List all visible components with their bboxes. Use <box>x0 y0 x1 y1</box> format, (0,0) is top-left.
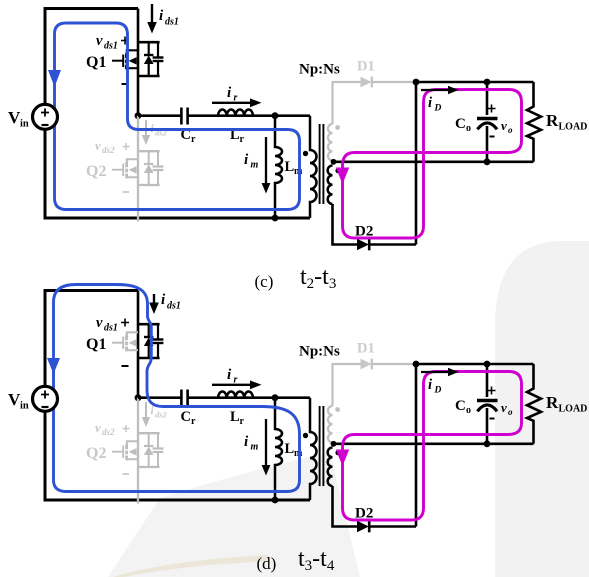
node Lm top (d) <box>272 394 279 401</box>
node junction Q1-Q2-Cr (c) <box>135 112 142 119</box>
svg-text:ds1: ds1 <box>104 41 118 52</box>
transistor Q2 MOSFET gray (c) <box>112 159 138 178</box>
svg-text:in: in <box>20 401 29 412</box>
current arrow i_D (c) <box>421 89 449 91</box>
node Co bottom (d) <box>484 440 491 447</box>
capacitor Q1 snubber (d) <box>153 324 164 358</box>
diode Q1 body diode (d) <box>144 324 154 358</box>
svg-text:r: r <box>191 416 196 427</box>
svg-text:in: in <box>20 119 29 130</box>
transformer secondary winding upper (gray, D1 path) (d) <box>328 406 333 443</box>
wire Q2 branch gray (c) <box>137 116 139 222</box>
label plus/minus vo (d) <box>488 387 496 395</box>
secondary lower polarity dot (d) <box>335 450 340 455</box>
transformer secondary winding lower (c) <box>328 165 333 204</box>
wire left + bottom rail primary (c) <box>45 129 310 218</box>
current arrow i_m (c) <box>265 137 267 184</box>
svg-text:v: v <box>95 138 101 153</box>
label plus/minus v_ds2 gray (c) <box>123 143 130 150</box>
resistor RLOAD (c) <box>527 82 541 162</box>
svg-text:v: v <box>95 420 101 435</box>
current loop secondary arrowhead (magenta) (d) <box>336 450 349 467</box>
node Lm top (c) <box>272 112 279 119</box>
transformer core (d) <box>320 406 324 486</box>
inductor Lr (c) <box>218 109 253 115</box>
wire output top rail (d) <box>416 363 534 366</box>
svg-text:o: o <box>508 125 513 135</box>
current arrow i_r (c) <box>212 102 251 104</box>
svg-text:(c): (c) <box>255 272 274 291</box>
wire center tap to output return (d) <box>333 442 534 445</box>
svg-text:R: R <box>546 393 559 412</box>
svg-text:i: i <box>428 377 432 393</box>
svg-text:i: i <box>428 95 432 111</box>
svg-text:C: C <box>455 116 466 132</box>
capacitor Co (c) <box>486 82 489 115</box>
wire left + bottom rail primary (d) <box>45 411 310 500</box>
transistor Q2 MOSFET gray (d) <box>112 441 138 460</box>
svg-text:o: o <box>508 407 513 417</box>
transistor Q1 MOSFET (d) <box>112 332 138 351</box>
current arrow i_ds1 (c) <box>151 4 153 23</box>
current arrow i_D (d) <box>421 371 449 373</box>
diode D2 (c) <box>357 239 369 251</box>
wire secondary upper to D1 gray (c) <box>333 82 361 124</box>
wire Q2 network bottom bar gray (d) <box>138 466 160 468</box>
wire Q2 network bottom bar gray (c) <box>138 184 160 186</box>
node Co top (c) <box>484 79 491 86</box>
svg-text:ds1: ds1 <box>104 323 118 334</box>
wire D1 to output rail gray (d) <box>372 363 416 365</box>
current loop secondary arrowhead (magenta) (c) <box>336 168 349 185</box>
svg-text:r: r <box>191 134 196 145</box>
resistor RLOAD (d) <box>527 364 541 444</box>
svg-text:D: D <box>434 104 442 114</box>
svg-text:v: v <box>501 400 507 415</box>
svg-text:(d): (d) <box>257 554 277 573</box>
wire Q2 branch gray (d) <box>137 398 139 504</box>
svg-text:LOAD: LOAD <box>559 122 588 133</box>
transformer primary winding (c) <box>310 116 317 218</box>
svg-text:Q2: Q2 <box>86 445 106 462</box>
label plus/minus v_ds2 gray (d) <box>123 425 130 432</box>
background wash bottom center <box>108 452 360 577</box>
svg-text:r: r <box>240 416 245 427</box>
transformer secondary winding lower (d) <box>328 447 333 486</box>
transformer primary polarity dot (d) <box>303 433 308 438</box>
wire junction to Cr (d) <box>138 396 181 399</box>
svg-text:C: C <box>455 398 466 414</box>
svg-text:v: v <box>96 33 103 49</box>
svg-text:o: o <box>466 123 471 134</box>
svg-text:m: m <box>251 442 259 453</box>
wire center tap to output return (c) <box>333 161 534 164</box>
wire Q1 drain/source branch (c) <box>137 9 140 116</box>
transformer primary winding (d) <box>310 398 317 500</box>
svg-text:m: m <box>251 160 259 171</box>
svg-text:LOAD: LOAD <box>559 404 588 415</box>
node center tap (c) <box>331 159 337 165</box>
label plus/minus v_ds1 (d) <box>121 319 129 327</box>
node junction Q1-Q2-Cr (d) <box>135 394 142 401</box>
svg-text:ds1: ds1 <box>167 301 181 312</box>
current arrow i_m (d) <box>265 419 267 466</box>
svg-text:r: r <box>234 93 238 104</box>
node Co bottom (c) <box>484 158 491 165</box>
svg-text:Q1: Q1 <box>86 336 106 353</box>
svg-text:D1: D1 <box>357 59 375 75</box>
wire junction to Cr (c) <box>138 114 181 117</box>
node output rail / D1-D2 (c) <box>413 79 420 86</box>
svg-text:Q1: Q1 <box>86 54 106 71</box>
wire Q1 network bottom bar (c) <box>138 75 160 78</box>
svg-text:L: L <box>285 159 295 175</box>
wire Q1 network top bar (d) <box>138 323 160 326</box>
inductor Lm (d) <box>275 398 282 500</box>
current loop primary arrowhead (blue) (d) <box>47 358 60 374</box>
wire Q2 network top bar gray (d) <box>138 432 160 434</box>
voltage source Vin (c) <box>33 104 58 129</box>
svg-text:D1: D1 <box>357 341 375 357</box>
node Co top (d) <box>484 361 491 368</box>
diode Q2 body diode gray (c) <box>144 151 154 185</box>
transformer primary polarity dot (c) <box>303 151 308 156</box>
wire top rail primary (d) <box>45 291 138 387</box>
wire D2 to riser (c) <box>369 243 416 246</box>
capacitor Co (d) <box>486 364 489 397</box>
secondary upper polarity dot gray (c) <box>335 125 340 130</box>
current loop primary arrowhead (blue) (c) <box>48 70 61 87</box>
svg-text:ds2: ds2 <box>102 427 115 437</box>
current arrow i_ds1 (d) <box>153 294 155 304</box>
secondary lower polarity dot (c) <box>335 168 340 173</box>
wire Q1 network top bar (c) <box>138 41 160 44</box>
diode D2 (d) <box>357 521 369 533</box>
svg-text:D: D <box>434 386 442 396</box>
capacitor Q2 snubber gray (d) <box>153 433 164 467</box>
capacitor Q2 snubber gray (c) <box>153 151 164 185</box>
wire secondary lower to D2 (d) <box>333 486 358 527</box>
svg-text:R: R <box>546 111 559 130</box>
capacitor Cr (c) <box>181 108 187 125</box>
svg-text:C: C <box>181 409 191 425</box>
svg-text:Np:Ns: Np:Ns <box>299 344 340 360</box>
inductor Lr (d) <box>218 391 253 397</box>
wire Q1 network bottom bar (d) <box>138 357 160 360</box>
transistor Q1 MOSFET (c) <box>112 50 138 69</box>
svg-text:o: o <box>466 405 471 416</box>
background blob right <box>495 241 589 577</box>
svg-text:Q2: Q2 <box>86 163 106 180</box>
diode Q1 body diode (c) <box>144 42 154 76</box>
current loop secondary (magenta) (c) <box>343 90 522 239</box>
svg-text:L: L <box>230 409 240 425</box>
wire D2 to riser (d) <box>369 525 416 528</box>
node center tap (d) <box>331 441 337 447</box>
svg-text:v: v <box>501 118 507 133</box>
background tan arc <box>113 555 270 577</box>
current arrow i_ds2 gray (d) <box>145 402 147 418</box>
inductor Lm (c) <box>275 116 282 218</box>
svg-text:ds2: ds2 <box>102 145 115 155</box>
diode D1 gray (c) <box>361 77 372 88</box>
svg-text:v: v <box>96 315 103 331</box>
node Lm bottom (d) <box>272 497 279 504</box>
transformer core (c) <box>320 124 324 204</box>
svg-text:r: r <box>240 134 245 145</box>
diode Q2 body diode gray (d) <box>144 433 154 467</box>
wire Q1 drain/source branch (d) <box>137 291 140 398</box>
wire secondary upper to D1 gray (d) <box>333 364 361 406</box>
wire riser D2 cathode to output rail (d) <box>415 364 418 527</box>
current arrow i_ds2 gray (c) <box>145 120 147 136</box>
wire output top rail (c) <box>416 81 534 84</box>
current loop primary (blue) (d) <box>54 285 300 492</box>
wire D1 to output rail gray (c) <box>372 81 416 83</box>
wire Q2 network top bar gray (c) <box>138 150 160 152</box>
label plus/minus v_ds1 (c) <box>121 37 129 45</box>
wire riser D2 cathode to output rail (c) <box>415 82 418 245</box>
secondary upper polarity dot gray (d) <box>335 407 340 412</box>
wire secondary lower to D2 (c) <box>333 204 358 245</box>
svg-text:Np:Ns: Np:Ns <box>299 62 340 78</box>
svg-text:ds1: ds1 <box>165 17 179 28</box>
svg-text:r: r <box>234 375 238 386</box>
capacitor Q1 snubber (c) <box>153 42 164 76</box>
node output rail / D1-D2 (d) <box>413 361 420 368</box>
current loop primary (blue) (c) <box>55 23 300 210</box>
wire Cr to Lr to transformer (c) <box>188 114 310 117</box>
svg-text:L: L <box>285 441 295 457</box>
capacitor Cr (d) <box>181 390 187 407</box>
wire Cr to Lr to transformer (d) <box>188 396 310 399</box>
node Lm bottom (c) <box>272 215 279 222</box>
diode D1 gray (d) <box>361 359 372 370</box>
voltage source Vin (d) <box>33 386 58 411</box>
wire top rail primary (c) <box>45 9 138 105</box>
current arrow i_r (d) <box>212 384 251 386</box>
label plus/minus vo (c) <box>488 105 496 113</box>
current loop secondary (magenta) (d) <box>343 372 522 521</box>
transformer secondary winding upper (gray, D1 path) (c) <box>328 124 333 160</box>
svg-text:ds2: ds2 <box>155 410 168 420</box>
